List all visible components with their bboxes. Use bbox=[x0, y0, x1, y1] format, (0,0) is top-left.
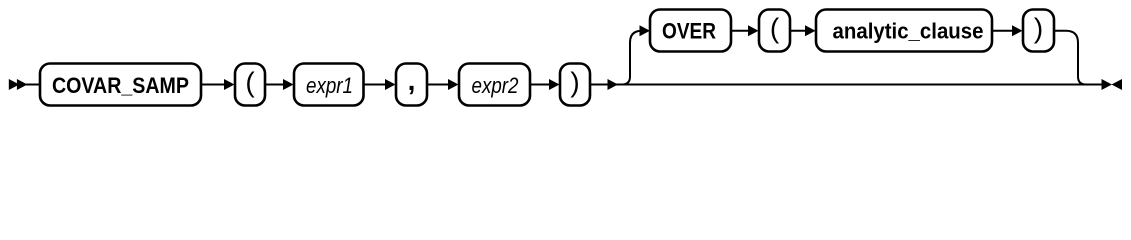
svg-text:expr1: expr1 bbox=[306, 73, 353, 98]
svg-text:OVER: OVER bbox=[662, 19, 716, 44]
arrow comma to expr2 bbox=[427, 79, 459, 90]
svg-text:(: ( bbox=[770, 13, 780, 44]
keyword box comma bbox=[396, 64, 427, 106]
keyword box ( bbox=[235, 64, 265, 106]
svg-text:): ) bbox=[1034, 13, 1043, 44]
arrowhead into OVER bbox=[640, 25, 651, 36]
svg-text:analytic_clause: analytic_clause bbox=[833, 19, 984, 44]
nonterminal box expr2 bbox=[459, 64, 530, 106]
arrow OVER to ( bbox=[731, 25, 759, 36]
keyword box OVER bbox=[650, 10, 731, 52]
svg-text:expr2: expr2 bbox=[472, 73, 519, 98]
start terminal double arrow bbox=[9, 79, 28, 90]
arrowhead on main wire bbox=[608, 79, 619, 90]
arrow ( to analytic_clause bbox=[790, 25, 816, 36]
arrow expr2 to ) bbox=[530, 79, 560, 90]
arrow ( to expr1 bbox=[265, 79, 294, 90]
arrow expr1 to comma bbox=[364, 79, 396, 90]
svg-text:(: ( bbox=[245, 66, 255, 97]
arrow COVAR_SAMP to ( bbox=[201, 79, 235, 90]
branch wire down to main line bbox=[1054, 31, 1086, 85]
keyword box ( top bbox=[759, 10, 790, 52]
end terminal bowtie bbox=[1102, 79, 1123, 90]
svg-text:,: , bbox=[408, 65, 416, 96]
svg-text:COVAR_SAMP: COVAR_SAMP bbox=[52, 73, 189, 98]
arrow analytic_clause to ) bbox=[992, 25, 1023, 36]
branch wire up to OVER row bbox=[622, 31, 642, 85]
main wire ) to end terminal bbox=[590, 84, 1102, 86]
keyword box analytic_clause bbox=[816, 10, 992, 52]
nonterminal box expr1 bbox=[294, 64, 364, 106]
keyword box ) bbox=[560, 64, 590, 106]
svg-text:): ) bbox=[570, 66, 579, 97]
keyword box COVAR_SAMP bbox=[40, 64, 201, 106]
wire start to COVAR_SAMP bbox=[26, 84, 40, 86]
keyword box ) top bbox=[1023, 10, 1054, 52]
